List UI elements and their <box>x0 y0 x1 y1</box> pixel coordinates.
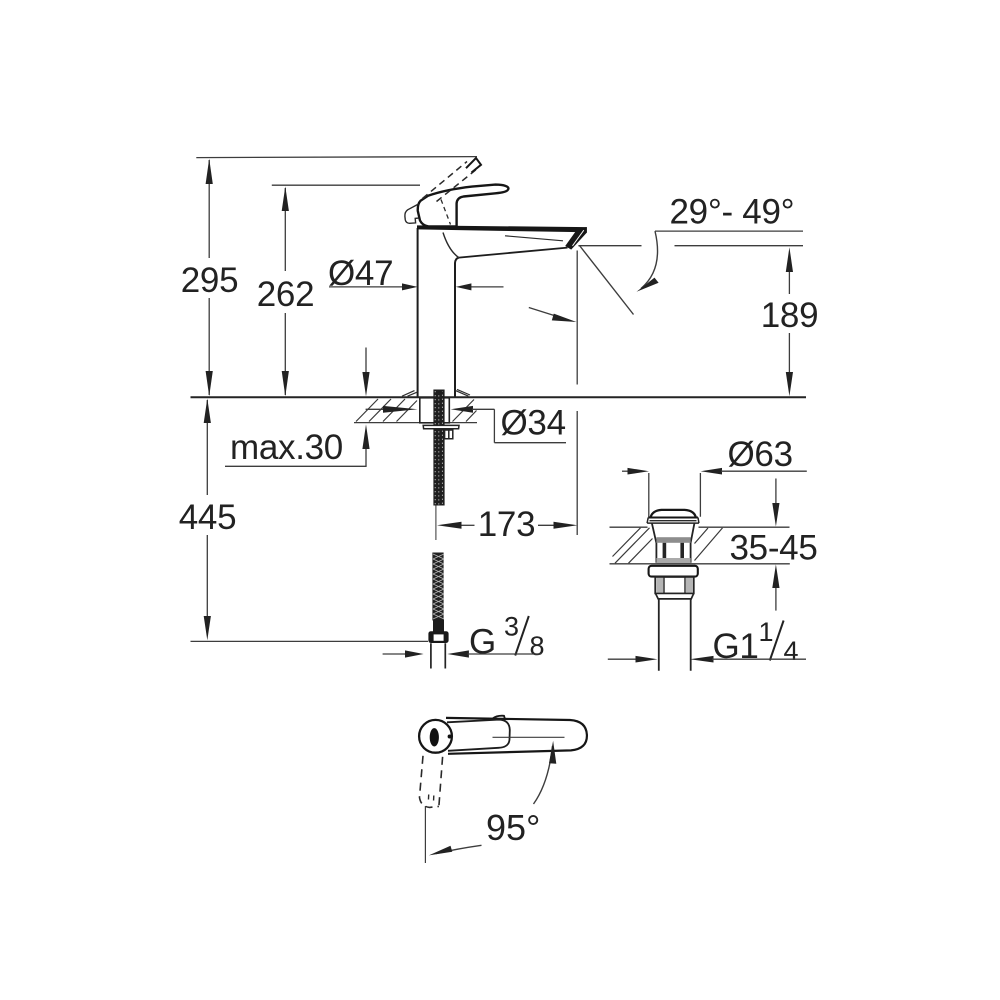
svg-text:Ø34: Ø34 <box>501 404 566 443</box>
faucet spout inner line under band <box>505 236 563 241</box>
mounting shank outline <box>420 398 450 423</box>
drain locknut flange <box>649 566 698 577</box>
svg-text:95°: 95° <box>486 807 540 848</box>
outlet vertical extension x=577 (broken at deck) <box>576 251 578 536</box>
faucet spout underside line <box>459 248 568 258</box>
deck / countertop top line <box>191 396 807 398</box>
drain nut body <box>655 577 694 593</box>
water stream diagonal line <box>580 246 634 315</box>
handle top view: hidden oval dashes <box>428 795 434 805</box>
445 bottom reference line <box>191 640 429 642</box>
dimension 35-45 upper arrow <box>775 479 777 506</box>
svg-text:29°- 49°: 29°- 49° <box>670 193 795 232</box>
drain barrel lower band <box>656 558 690 563</box>
faucet body fillet curve <box>443 233 459 258</box>
hose tail below nut <box>431 643 445 668</box>
dimension max.30: lower arrow (points up to counter bottom) <box>365 448 367 466</box>
G1 1/4 dimension arrows <box>608 658 637 660</box>
svg-text:Ø63: Ø63 <box>728 435 793 474</box>
svg-text:1: 1 <box>759 617 774 647</box>
handle top view: top notch <box>493 716 506 719</box>
drain hatching right <box>695 528 723 561</box>
dimension 35-45 lower arrow <box>775 587 777 611</box>
base gasket hatch ticks above deck <box>402 391 417 397</box>
svg-text:G: G <box>469 623 496 662</box>
dimension 173 horizontal <box>460 524 475 526</box>
O34 leader corner and underline <box>494 409 566 442</box>
handle top view: knob dark oval <box>430 728 439 746</box>
O47 leader left (arrow to column left edge) <box>329 286 404 288</box>
dimension 295 arrowheads <box>206 159 213 184</box>
countertop section hatching right <box>453 400 477 422</box>
lever raised position (dashed) <box>423 162 468 199</box>
handle top view: centerline <box>493 736 565 738</box>
95 degrees lower arc with arrowhead <box>436 845 482 853</box>
faucet spout top thick band <box>417 225 587 232</box>
drain stopper cap dome <box>651 510 696 517</box>
hose end fitting <box>433 620 444 633</box>
handle hidden cartridge dashed line <box>441 200 451 225</box>
dimension 189 vertical <box>788 267 790 374</box>
svg-text:35-45: 35-45 <box>730 529 818 568</box>
svg-text:295: 295 <box>181 261 239 300</box>
max.30 underline <box>225 465 367 467</box>
sink deck line at drain <box>610 526 790 528</box>
faucet column left edge <box>417 228 419 397</box>
drain cap rim <box>648 517 698 519</box>
svg-text:8: 8 <box>530 631 545 661</box>
svg-text:max.30: max.30 <box>230 428 343 467</box>
hose centerline between rod and flex hose <box>435 506 437 541</box>
svg-text:189: 189 <box>761 296 819 335</box>
threaded rod thread texture <box>434 391 436 505</box>
drain barrel walls <box>652 523 695 563</box>
countertop bottom line <box>354 422 477 424</box>
handle top view: outer pill outline <box>446 718 587 754</box>
flexible braided hose <box>432 553 443 621</box>
spray angle small arc with arrow <box>529 308 570 321</box>
dimension 445 vertical line <box>206 400 208 618</box>
svg-text:445: 445 <box>179 498 237 537</box>
faucet spout tip (outlet beak) <box>565 227 587 250</box>
95 degrees upper arc with arrowhead <box>534 746 553 804</box>
dimension max.30: upper arrow (points down to deck) <box>365 348 367 375</box>
dimension 295 vertical line <box>208 160 210 395</box>
handle body and lever (solid, horizontal position) <box>418 185 509 227</box>
drain: O63 extension lines <box>649 473 701 517</box>
fixing nut <box>445 430 453 439</box>
drain barrel upper band <box>656 537 690 543</box>
handle left protrusion (thin outline) <box>405 204 419 223</box>
svg-text:262: 262 <box>257 275 315 314</box>
dimension O63 <box>622 470 630 472</box>
label shelf for 29-49 (y=231) <box>655 230 803 232</box>
handle top view: small dot <box>448 735 452 739</box>
svg-text:173: 173 <box>478 505 536 544</box>
washer under counter <box>423 425 459 428</box>
dimension 262 vertical line <box>284 188 286 395</box>
95 degrees reference vertical line <box>424 806 426 863</box>
extension line: faucet max height (top, y=157) <box>196 157 477 158</box>
G3/8 connector nut <box>428 631 448 643</box>
spout tip highlight slit <box>573 230 584 246</box>
countertop bottom line at drain <box>610 563 790 565</box>
svg-text:4: 4 <box>784 636 799 666</box>
countertop section hatching left <box>356 399 417 422</box>
dimension 262 arrowheads <box>282 186 289 211</box>
drain nut skirt <box>656 594 694 599</box>
handle top view: inner lever outline <box>447 720 510 751</box>
svg-text:G1: G1 <box>713 627 759 666</box>
G3/8 dimension arrows <box>383 653 407 655</box>
dimension O34 arrows at shank <box>366 408 386 410</box>
extension line: spout outlet level (y=245.7, broken by arc) <box>578 245 803 247</box>
threaded rod <box>433 390 444 506</box>
O47 leader right (arrow to column right edge) <box>469 286 504 288</box>
svg-text:3: 3 <box>504 612 519 642</box>
handle top view: knob circle <box>419 720 452 753</box>
29-49 angle arc with arrowhead <box>641 231 658 288</box>
handle top view: swung position dashed outline <box>420 756 424 797</box>
faucet column right edge with corner curve into spout underside <box>455 258 459 397</box>
drain hatching left <box>613 528 653 563</box>
drain barrel slot band with bars <box>663 543 667 558</box>
drain tailpipe <box>659 599 691 671</box>
lever raised tip (solid strokes) <box>466 158 481 173</box>
extension line: lever height (y=185) <box>272 184 420 186</box>
